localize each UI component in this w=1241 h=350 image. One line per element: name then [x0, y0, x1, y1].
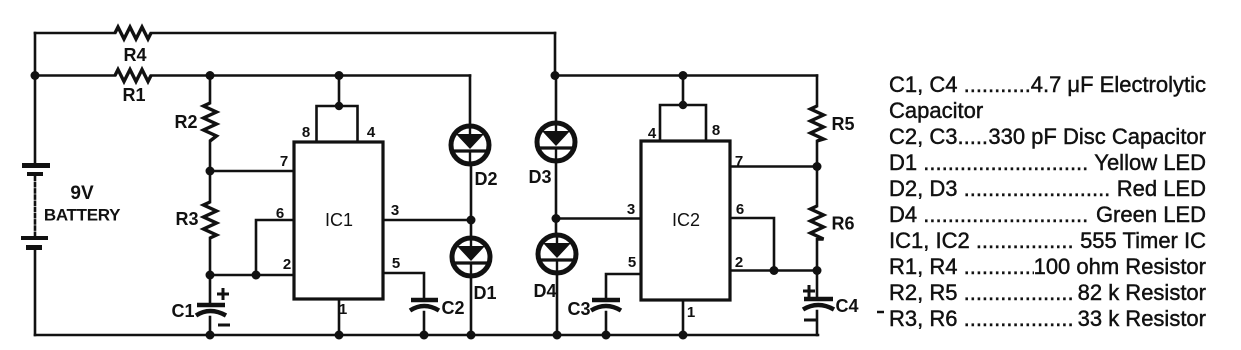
svg-text:6: 6	[276, 205, 284, 222]
svg-text:8: 8	[712, 122, 720, 139]
svg-text:R4: R4	[123, 45, 146, 65]
svg-text:C3: C3	[567, 299, 590, 319]
svg-text:R3: R3	[175, 209, 198, 229]
svg-text:3: 3	[627, 201, 635, 218]
svg-text:4: 4	[367, 124, 376, 141]
svg-text:R6: R6	[831, 214, 854, 234]
svg-text:7: 7	[735, 153, 743, 170]
svg-text:D3: D3	[528, 167, 551, 187]
svg-text:3: 3	[391, 202, 399, 219]
svg-text:1: 1	[339, 301, 347, 318]
svg-text:R2: R2	[174, 112, 197, 132]
svg-text:R5: R5	[831, 114, 854, 134]
svg-text:IC1: IC1	[325, 210, 353, 230]
svg-text:C1: C1	[171, 301, 194, 321]
svg-text:C4: C4	[835, 296, 858, 316]
svg-text:BATTERY: BATTERY	[44, 206, 121, 225]
svg-text:C2: C2	[441, 298, 464, 318]
svg-text:2: 2	[283, 256, 291, 273]
svg-text:5: 5	[392, 255, 400, 272]
svg-text:5: 5	[628, 254, 636, 271]
svg-text:9V: 9V	[70, 183, 94, 204]
svg-text:R1: R1	[122, 85, 145, 105]
svg-text:D4: D4	[533, 281, 556, 301]
svg-text:6: 6	[736, 201, 744, 218]
svg-text:8: 8	[302, 124, 310, 141]
svg-text:4: 4	[648, 125, 657, 142]
svg-text:D2: D2	[474, 169, 497, 189]
svg-text:7: 7	[280, 153, 288, 170]
svg-text:2: 2	[735, 254, 743, 271]
svg-text:IC2: IC2	[672, 210, 700, 230]
svg-text:1: 1	[687, 304, 695, 321]
svg-text:D1: D1	[473, 283, 496, 303]
